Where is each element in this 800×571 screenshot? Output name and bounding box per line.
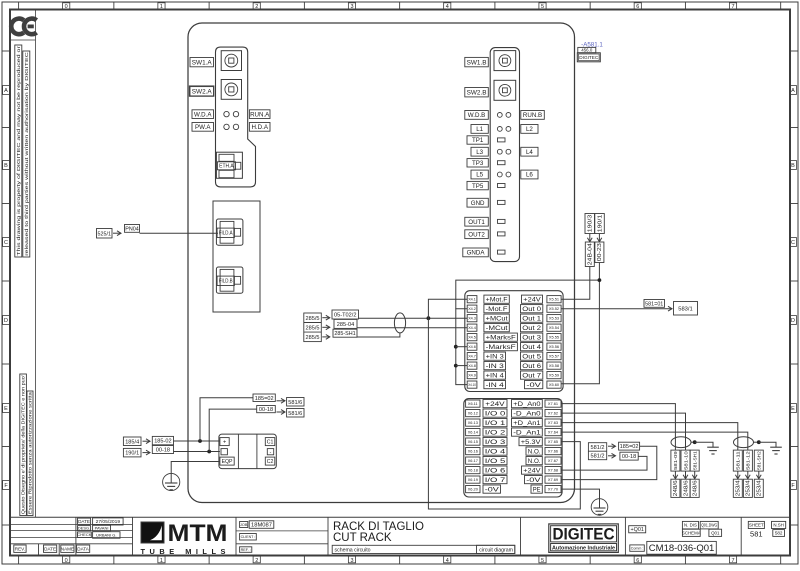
MTM logo black square with sail xyxy=(141,522,164,543)
svg-text:27/05/2019: 27/05/2019 xyxy=(96,519,121,525)
grid column label 3 (top) xyxy=(348,3,355,9)
svg-text:285/5: 285/5 xyxy=(306,335,320,341)
svg-text:Out 0: Out 0 xyxy=(522,307,542,313)
signal name +IN 4 xyxy=(484,371,506,379)
terminal X4.8 pin box xyxy=(467,362,477,369)
svg-text:X7.69: X7.69 xyxy=(548,477,558,482)
svg-text:X6.13: X6.13 xyxy=(468,420,478,425)
signal name I/O 7 xyxy=(483,476,507,484)
wire label 581-10 (rotated) xyxy=(681,450,690,471)
cable screen symbol (oval) cable 581 group 2 xyxy=(734,437,754,448)
label PW.A xyxy=(192,123,214,132)
svg-text:X6.19: X6.19 xyxy=(468,477,478,482)
wire label 285-04 xyxy=(334,319,357,328)
svg-text:+IN 3: +IN 3 xyxy=(486,354,505,360)
label OUT2 xyxy=(465,230,489,239)
svg-text:X5.52: X5.52 xyxy=(549,306,559,311)
svg-text:581-11: 581-11 xyxy=(736,451,742,470)
LED L4 xyxy=(506,149,511,154)
wire 0V supply down to junction xyxy=(561,263,599,384)
svg-text:REF. :: REF. : xyxy=(241,548,251,552)
arrow from 581/2 row1 xyxy=(608,445,616,447)
terminal X5.55 pin box xyxy=(547,334,561,341)
svg-text:NAME: NAME xyxy=(61,546,74,551)
svg-text:1: 1 xyxy=(160,4,163,10)
signal name I/O 6 xyxy=(483,466,507,474)
svg-text:00-23: 00-23 xyxy=(597,243,603,261)
svg-text:Out 7: Out 7 xyxy=(522,373,542,379)
signal name +IN 3 xyxy=(484,352,506,360)
grid row label A (right) xyxy=(790,86,797,95)
svg-text:N.O.: N.O. xyxy=(528,449,541,455)
svg-text:X6.11: X6.11 xyxy=(468,401,478,406)
svg-text:I/O 6: I/O 6 xyxy=(485,468,507,474)
wire label 185=02 xyxy=(619,442,640,450)
svg-text:185/4: 185/4 xyxy=(125,439,139,445)
wire label 581-SH2 (rotated) xyxy=(754,450,763,471)
svg-text:00-18: 00-18 xyxy=(622,454,636,460)
svg-text:SCHEMA: SCHEMA xyxy=(682,530,701,535)
signal name +24V xyxy=(522,295,543,303)
signal name -0V xyxy=(525,381,543,389)
terminal X7.65 pin box xyxy=(545,438,561,445)
LED RUN.A xyxy=(233,111,238,116)
total sheets 582 xyxy=(773,530,785,537)
terminal X7.66 pin box xyxy=(545,448,561,455)
grid row label D (left) xyxy=(3,316,10,325)
terminal X5.54 pin box xyxy=(547,324,561,331)
grid column label 1 (top) xyxy=(158,3,165,9)
label WD.A xyxy=(192,110,214,119)
module A outline xyxy=(216,47,256,187)
ground symbol cable1 shield xyxy=(695,442,713,447)
grid tick (bottom margin) xyxy=(494,556,496,565)
SCHEMA field label xyxy=(682,529,700,536)
svg-text:Out 5: Out 5 xyxy=(522,354,542,360)
svg-text:RUN.A: RUN.A xyxy=(250,111,270,118)
label TP1 xyxy=(467,136,488,144)
terminal X4.9 pin box xyxy=(467,372,477,379)
svg-text:-D_An0: -D_An0 xyxy=(513,411,541,417)
CE conformity mark logo xyxy=(11,19,36,35)
terminal X5.59 pin box xyxy=(547,372,561,379)
svg-text:X6.17: X6.17 xyxy=(468,458,478,463)
signal name +D_An1 xyxy=(512,419,543,427)
svg-text:05-T02/2: 05-T02/2 xyxy=(334,313,356,319)
label L3 xyxy=(471,147,488,156)
grid column label 4 (top) xyxy=(444,3,451,9)
wire +MCut from cable to X4.3 xyxy=(359,317,468,319)
svg-text:X5.58: X5.58 xyxy=(549,363,559,368)
terminal X6.14 pin box xyxy=(466,429,480,436)
terminal X6.17 pin box xyxy=(466,457,480,464)
rotary switch SW2.A symbol xyxy=(221,80,241,100)
svg-text:SW1.A: SW1.A xyxy=(192,59,213,66)
SCHEMA value Q01 xyxy=(709,529,722,536)
terminal X7.68 pin box xyxy=(545,467,561,474)
wire label 185-02 (left) xyxy=(152,436,173,444)
svg-text:581-10: 581-10 xyxy=(683,451,689,470)
protective earth symbol (circled) xyxy=(591,499,608,516)
svg-text:X6.18: X6.18 xyxy=(468,468,478,473)
grid tick (right margin) xyxy=(790,446,798,448)
wire Out 0 from X5.52 to sheet 583 xyxy=(561,308,672,310)
svg-text:TP5: TP5 xyxy=(472,183,484,190)
ethernet connector ETH.A symbol xyxy=(216,152,242,178)
svg-text:URBANI G.: URBANI G. xyxy=(96,532,116,537)
svg-text:4: 4 xyxy=(446,558,449,564)
label OUT1 xyxy=(465,217,489,226)
svg-text:E: E xyxy=(4,406,8,412)
svg-text:B: B xyxy=(791,163,795,169)
connector FILD.A symbol xyxy=(216,219,243,245)
arrow down 581-10 xyxy=(685,471,687,479)
terminal X4.4 pin box xyxy=(467,324,477,331)
wire PN04 to FILD.A xyxy=(140,232,219,234)
svg-text:185-02: 185-02 xyxy=(154,439,171,445)
svg-text:7: 7 xyxy=(731,4,734,10)
svg-text:00-18: 00-18 xyxy=(259,407,273,413)
svg-text:248/6: 248/6 xyxy=(673,480,679,496)
svg-text:X7.68: X7.68 xyxy=(548,468,558,473)
grid tick (top margin) xyxy=(18,2,20,10)
wire label 185=02 (upper) xyxy=(253,394,275,402)
svg-text:4: 4 xyxy=(446,4,449,10)
signal name I/O 5 xyxy=(483,457,507,465)
wire label 581=01 xyxy=(644,300,665,308)
svg-text:581-09: 581-09 xyxy=(673,451,679,470)
source reference 190/3 (rotated) xyxy=(585,214,595,234)
LED RUN.B xyxy=(506,113,511,118)
wire 00-18 to X7.68 xyxy=(561,456,647,470)
terminal X4.5 pin box xyxy=(467,334,477,341)
svg-text:B: B xyxy=(4,163,8,169)
label GND xyxy=(467,198,488,207)
svg-text:+24V: +24V xyxy=(485,402,504,408)
svg-text:+: + xyxy=(223,440,226,446)
svg-text:X6.20: X6.20 xyxy=(468,487,479,492)
label RUN.A xyxy=(249,110,270,119)
svg-text:190/1: 190/1 xyxy=(597,215,603,233)
svg-text:DATE: DATE xyxy=(78,519,90,524)
grid tick (top margin) xyxy=(303,2,305,10)
terminal X7.69 pin box xyxy=(545,476,561,483)
arrow from 185/4 xyxy=(143,440,151,442)
label FILD.A xyxy=(217,228,234,237)
svg-text:A: A xyxy=(791,88,795,94)
svg-text:Out 4: Out 4 xyxy=(522,345,542,351)
checker name URBANI G. xyxy=(93,532,120,539)
terminal X5.60 pin box xyxy=(547,381,561,388)
wire stub to X4.8 xyxy=(456,365,467,367)
terminal X4.2 pin box xyxy=(467,305,477,312)
svg-text:X5.56: X5.56 xyxy=(549,344,559,349)
svg-text:MTM: MTM xyxy=(168,520,228,547)
svg-text:C: C xyxy=(4,240,8,246)
junction dot -0V net top corner xyxy=(456,280,600,309)
svg-text:L5: L5 xyxy=(476,172,483,179)
svg-text:18M087: 18M087 xyxy=(251,523,272,529)
svg-text:248/6: 248/6 xyxy=(683,480,689,496)
arrow down from 190/3 xyxy=(589,234,591,242)
terminal + of connector xyxy=(220,438,229,446)
terminal - of connector xyxy=(221,449,227,455)
test point TP1 xyxy=(498,138,506,142)
svg-text:REV.: REV. xyxy=(15,546,25,551)
svg-text:Q01.DWG: Q01.DWG xyxy=(701,523,717,528)
svg-text:581-SH2: 581-SH2 xyxy=(756,451,761,470)
svg-text:X5.59: X5.59 xyxy=(549,373,559,378)
arrow to 581/6 (2) xyxy=(277,411,286,413)
N. DIS field label xyxy=(682,521,698,529)
junction dot 0V supply node xyxy=(598,278,602,282)
svg-text:X6.14: X6.14 xyxy=(468,430,479,435)
svg-text:+D_An1: +D_An1 xyxy=(513,421,541,427)
label L6 xyxy=(521,170,538,179)
grid tick (top margin) xyxy=(589,2,591,10)
wire 00-18 to - terminal xyxy=(174,451,220,453)
svg-text:+IN 4: +IN 4 xyxy=(486,373,505,379)
svg-text:X5.53: X5.53 xyxy=(549,316,559,321)
svg-text:X6.16: X6.16 xyxy=(468,449,478,454)
source reference 190/1 (rotated) xyxy=(595,214,605,234)
title block top edge xyxy=(10,516,790,518)
label L2 xyxy=(521,125,538,134)
svg-text:581/6: 581/6 xyxy=(288,400,302,406)
signal name I/O 3 xyxy=(483,438,507,446)
wire label 581-12 (rotated) xyxy=(743,450,752,471)
grid column label 5 (top) xyxy=(539,3,546,9)
signal name -D_An0 xyxy=(512,409,543,417)
destination reference 581/6 (1) xyxy=(287,398,304,407)
DIGITEC company logo box xyxy=(549,524,619,553)
grid row label C (left) xyxy=(3,238,10,247)
destination reference 248/6 wire 581-10 (rotated) xyxy=(681,479,690,497)
svg-text:-Mot.F: -Mot.F xyxy=(486,307,508,313)
svg-text:X7.64: X7.64 xyxy=(548,430,559,435)
destination reference 253/4 wire 581-12 (rotated) xyxy=(743,479,752,497)
svg-text:TP3: TP3 xyxy=(472,160,484,167)
fieldbus connector block outline xyxy=(213,201,260,312)
svg-text:581-12: 581-12 xyxy=(746,451,752,470)
grid tick (top margin) xyxy=(494,2,496,10)
svg-text:DIGITEC: DIGITEC xyxy=(579,55,599,60)
wire -D_An0 X7.62 to cable 1 xyxy=(561,413,686,450)
revision column REV. header xyxy=(14,545,26,552)
test point GNDA xyxy=(498,250,506,254)
svg-text:X4.2: X4.2 xyxy=(468,306,476,311)
svg-text:0: 0 xyxy=(65,558,68,564)
terminal mid of connector xyxy=(267,449,273,455)
wire label PN04 xyxy=(125,225,140,233)
arrow down 581-SH2 xyxy=(758,471,760,479)
wire label 00-18 (left) xyxy=(152,446,173,454)
signal name +MCut xyxy=(484,314,509,322)
grid tick (left margin) xyxy=(2,127,10,129)
signal name -D_An1 xyxy=(512,428,543,436)
subtitle circuit diagram box xyxy=(477,545,515,553)
title block left section row lines xyxy=(10,523,133,525)
grid tick (bottom margin) xyxy=(780,556,782,565)
svg-text:X4.10: X4.10 xyxy=(468,382,476,387)
svg-text:285-SH1: 285-SH1 xyxy=(334,331,355,337)
svg-text:SW1.B: SW1.B xyxy=(467,59,487,66)
wire +D_An1 X7.63 to cable 2 xyxy=(561,423,738,451)
svg-text:2: 2 xyxy=(255,4,258,10)
label SW2.B xyxy=(465,88,489,97)
destination reference 581/6 (2) xyxy=(287,409,304,418)
svg-text:FILD.A: FILD.A xyxy=(219,231,233,237)
LED WD.A xyxy=(224,111,229,116)
svg-text:X7.63: X7.63 xyxy=(548,420,558,425)
svg-text:GND: GND xyxy=(471,200,485,207)
label SW2.A xyxy=(189,86,214,96)
svg-text:C: C xyxy=(791,240,795,246)
rack enclosure outline -A581.1 xyxy=(188,23,575,503)
svg-text:released to third parties with: released to third parties without writte… xyxy=(24,51,29,256)
left margin drawing-area divider line xyxy=(35,10,37,518)
terminal X5.52 pin box xyxy=(547,305,561,312)
svg-text:I/O 4: I/O 4 xyxy=(485,449,507,455)
svg-text:583/1: 583/1 xyxy=(678,306,693,312)
terminal X6.20 pin box xyxy=(466,486,480,493)
revision table DATE header xyxy=(78,518,91,524)
svg-text:581/2: 581/2 xyxy=(591,445,605,451)
wire label 581-SH1 (rotated) xyxy=(690,450,699,471)
svg-text:1: 1 xyxy=(160,558,163,564)
junction dot on +MCut wire at x=428.4 xyxy=(427,316,431,320)
grid tick (left margin) xyxy=(2,446,10,448)
svg-text:581-SH1: 581-SH1 xyxy=(692,451,697,470)
svg-text:OUT1: OUT1 xyxy=(468,219,485,226)
source reference stack 285/5 (3 rows) xyxy=(304,313,322,342)
grid tick (left margin) xyxy=(2,524,10,526)
svg-text:N.O.: N.O. xyxy=(528,459,541,465)
grid tick (top margin) xyxy=(113,2,115,10)
arrow from 190/1 xyxy=(143,452,151,454)
grid row label B (right) xyxy=(790,161,797,170)
svg-text:TUBE MILLS: TUBE MILLS xyxy=(141,547,230,556)
grid column label 2 (top) xyxy=(253,3,260,9)
LED L3 xyxy=(497,149,502,154)
wire screen link cable1 xyxy=(691,441,695,443)
terminal X6.19 pin box xyxy=(466,476,480,483)
property note (english) line 2 vertical text xyxy=(23,51,30,257)
svg-text:D: D xyxy=(791,318,795,324)
svg-text:285-04: 285-04 xyxy=(337,322,354,328)
svg-text:X7.62: X7.62 xyxy=(548,411,558,416)
LED L6 xyxy=(506,172,511,177)
signal name +24V xyxy=(483,400,507,408)
wire +Mot.F X4.1 branch from +5.3V net xyxy=(428,299,467,318)
wire EQP to earth xyxy=(171,462,220,474)
svg-text:I/O 2: I/O 2 xyxy=(485,430,507,436)
arrow down 581-11 xyxy=(737,471,739,479)
signal name -IN 4 xyxy=(484,381,506,389)
svg-text:+Mot.F: +Mot.F xyxy=(486,297,508,303)
cable name label 05-T02/2 xyxy=(332,310,359,319)
svg-text:-0V: -0V xyxy=(526,478,540,484)
terminal X6.12 pin box xyxy=(466,410,480,417)
grid tick (bottom margin) xyxy=(208,556,210,565)
signal name Out 4 xyxy=(521,343,543,351)
terminal X7.70 pin box xyxy=(545,486,561,493)
svg-text:-0V: -0V xyxy=(526,383,541,389)
svg-text:PAVANI: PAVANI xyxy=(95,525,109,530)
svg-text:PW.A: PW.A xyxy=(195,124,211,131)
signal name +5.3V xyxy=(519,438,542,446)
svg-text:I/O 1: I/O 1 xyxy=(485,421,507,427)
svg-text:W.D.A: W.D.A xyxy=(194,111,212,118)
svg-text:X4.3: X4.3 xyxy=(468,316,476,321)
svg-text:+24V: +24V xyxy=(523,297,541,303)
label FILD.B xyxy=(217,276,234,285)
source reference 525/1 xyxy=(97,229,113,239)
title block vertical dividers xyxy=(38,544,40,556)
LED L1 xyxy=(497,126,502,131)
grid column label 7 (bottom) xyxy=(729,556,736,563)
grid column label 1 (bottom) xyxy=(158,556,165,563)
label L4 xyxy=(521,147,538,156)
cable shield wire 285-SH1 to screen symbol xyxy=(357,333,400,337)
terminal X7.67 pin box xyxy=(545,457,561,464)
JOB column row line xyxy=(236,530,328,532)
svg-text:581/2: 581/2 xyxy=(591,453,605,459)
svg-text:C1: C1 xyxy=(267,439,274,445)
rotary switch SW1.B symbol xyxy=(494,51,516,71)
grid row label F (right) xyxy=(790,481,797,490)
terminal X7.62 pin box xyxy=(545,410,561,417)
svg-text:X5.54: X5.54 xyxy=(549,325,560,330)
svg-text:Out 2: Out 2 xyxy=(522,326,542,332)
destination reference 253/4 wire 581-11 (rotated) xyxy=(733,479,742,497)
svg-text:I/O 0: I/O 0 xyxy=(485,411,507,417)
svg-text:581: 581 xyxy=(750,530,763,539)
junction dot cable1 shield xyxy=(693,440,697,444)
terminal X6.13 pin box xyxy=(466,419,480,426)
source reference 185/4 xyxy=(123,437,141,446)
svg-text:DIGITEC: DIGITEC xyxy=(553,525,615,543)
label L1 xyxy=(471,125,488,134)
grid row label E (left) xyxy=(3,404,10,413)
svg-text:TP1: TP1 xyxy=(472,137,484,144)
wire PE X7.70 to earth xyxy=(561,489,600,498)
svg-text:6: 6 xyxy=(636,4,639,10)
svg-text:185=02: 185=02 xyxy=(620,444,639,450)
wire label 00-18 xyxy=(620,452,638,460)
terminal X5.53 pin box xyxy=(547,315,561,322)
signal name Out 1 xyxy=(521,314,543,322)
svg-text:456.0: 456.0 xyxy=(581,48,593,53)
svg-text:+5.3V: +5.3V xyxy=(521,440,541,446)
terminal X6.15 pin box xyxy=(466,438,480,445)
DIGITEC Automazione Industriale bar xyxy=(551,544,617,551)
svg-text:3: 3 xyxy=(350,4,353,10)
svg-text:N.SH: N.SH xyxy=(773,523,784,528)
signal name I/O 4 xyxy=(483,447,507,455)
svg-text:+24V: +24V xyxy=(523,468,540,474)
grid tick (right margin) xyxy=(790,203,798,205)
svg-text:X4.7: X4.7 xyxy=(468,354,476,359)
svg-text:X7.61: X7.61 xyxy=(548,401,558,406)
svg-text:X5.57: X5.57 xyxy=(549,354,559,359)
svg-text:X4.1: X4.1 xyxy=(468,297,476,302)
grid tick (bottom margin) xyxy=(399,556,401,565)
terminal C1 of connector xyxy=(265,438,275,446)
grid column label 5 (bottom) xyxy=(539,556,546,563)
grid tick (bottom margin) xyxy=(589,556,591,565)
destination reference 248/6 wire 581-SH1 (rotated) xyxy=(690,479,699,497)
